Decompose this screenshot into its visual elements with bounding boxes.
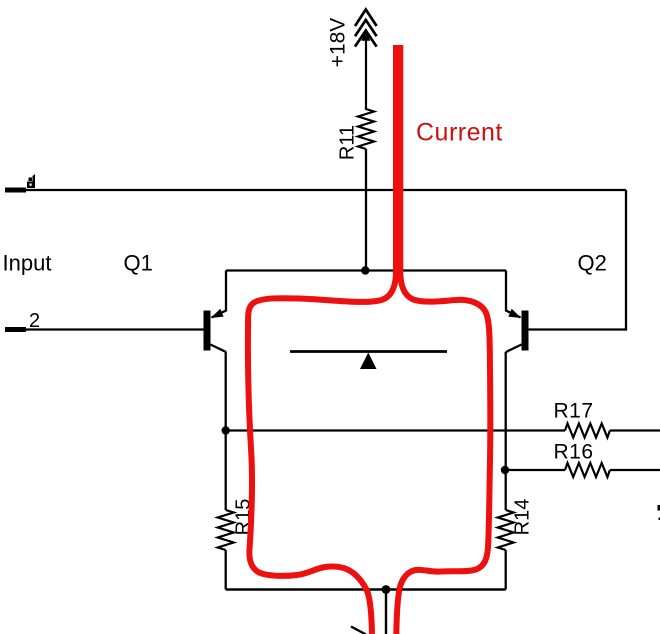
svg-text:Input: Input [3, 251, 52, 276]
fulcrum triangle [360, 353, 377, 370]
terminal 1 [5, 188, 26, 193]
node dot rail/R11 [361, 266, 369, 274]
wire R17 row [226, 429, 660, 431]
bottom rail wire [226, 588, 506, 590]
svg-text:R16: R16 [554, 441, 594, 464]
node dot bottom rail [382, 585, 391, 594]
svg-text:R11: R11 [337, 125, 359, 160]
svg-text:+18V: +18V [327, 18, 350, 68]
wire terminal1 to right drop [26, 189, 626, 191]
svg-text:R14: R14 [512, 499, 534, 536]
node dot left rail R17 [222, 426, 230, 434]
resistor R14 [498, 510, 514, 550]
wire R15 to bottom rail [225, 550, 227, 590]
wire right drop to Q2 base [529, 190, 627, 330]
seesaw beam [290, 350, 447, 353]
current source arrow (cut off) [351, 627, 366, 634]
red current path left branch [248, 45, 396, 634]
wire R11 to emitter rail [365, 149, 367, 271]
wire R14 to bottom rail [505, 550, 507, 590]
wire Q1 collector / left rail [225, 352, 227, 510]
wire terminal2 to Q1 base [26, 328, 204, 330]
node dot right rail R16 [501, 466, 509, 474]
power arrowhead [361, 30, 370, 41]
resistor R17 [565, 424, 610, 438]
power symbol +18V [355, 10, 377, 111]
wire tail to current source [385, 590, 387, 634]
svg-text:R17: R17 [554, 400, 594, 423]
wire R16 row [506, 469, 660, 471]
emitter rail wire [226, 269, 506, 271]
transistor Q1 [204, 271, 227, 353]
resistor R11 [358, 109, 374, 149]
edge artifact right [658, 505, 660, 511]
resistor R15 [218, 510, 234, 550]
red current path right branch [396, 45, 490, 634]
transistor Q2 [506, 271, 529, 353]
svg-text:Current: Current [416, 119, 503, 147]
terminal 2 [5, 327, 26, 332]
wire Q2 collector / right rail [505, 352, 507, 510]
svg-text:Q1: Q1 [124, 251, 153, 276]
label 1 [27, 174, 35, 188]
resistor R16 [565, 463, 610, 477]
svg-text:Q2: Q2 [578, 251, 607, 276]
